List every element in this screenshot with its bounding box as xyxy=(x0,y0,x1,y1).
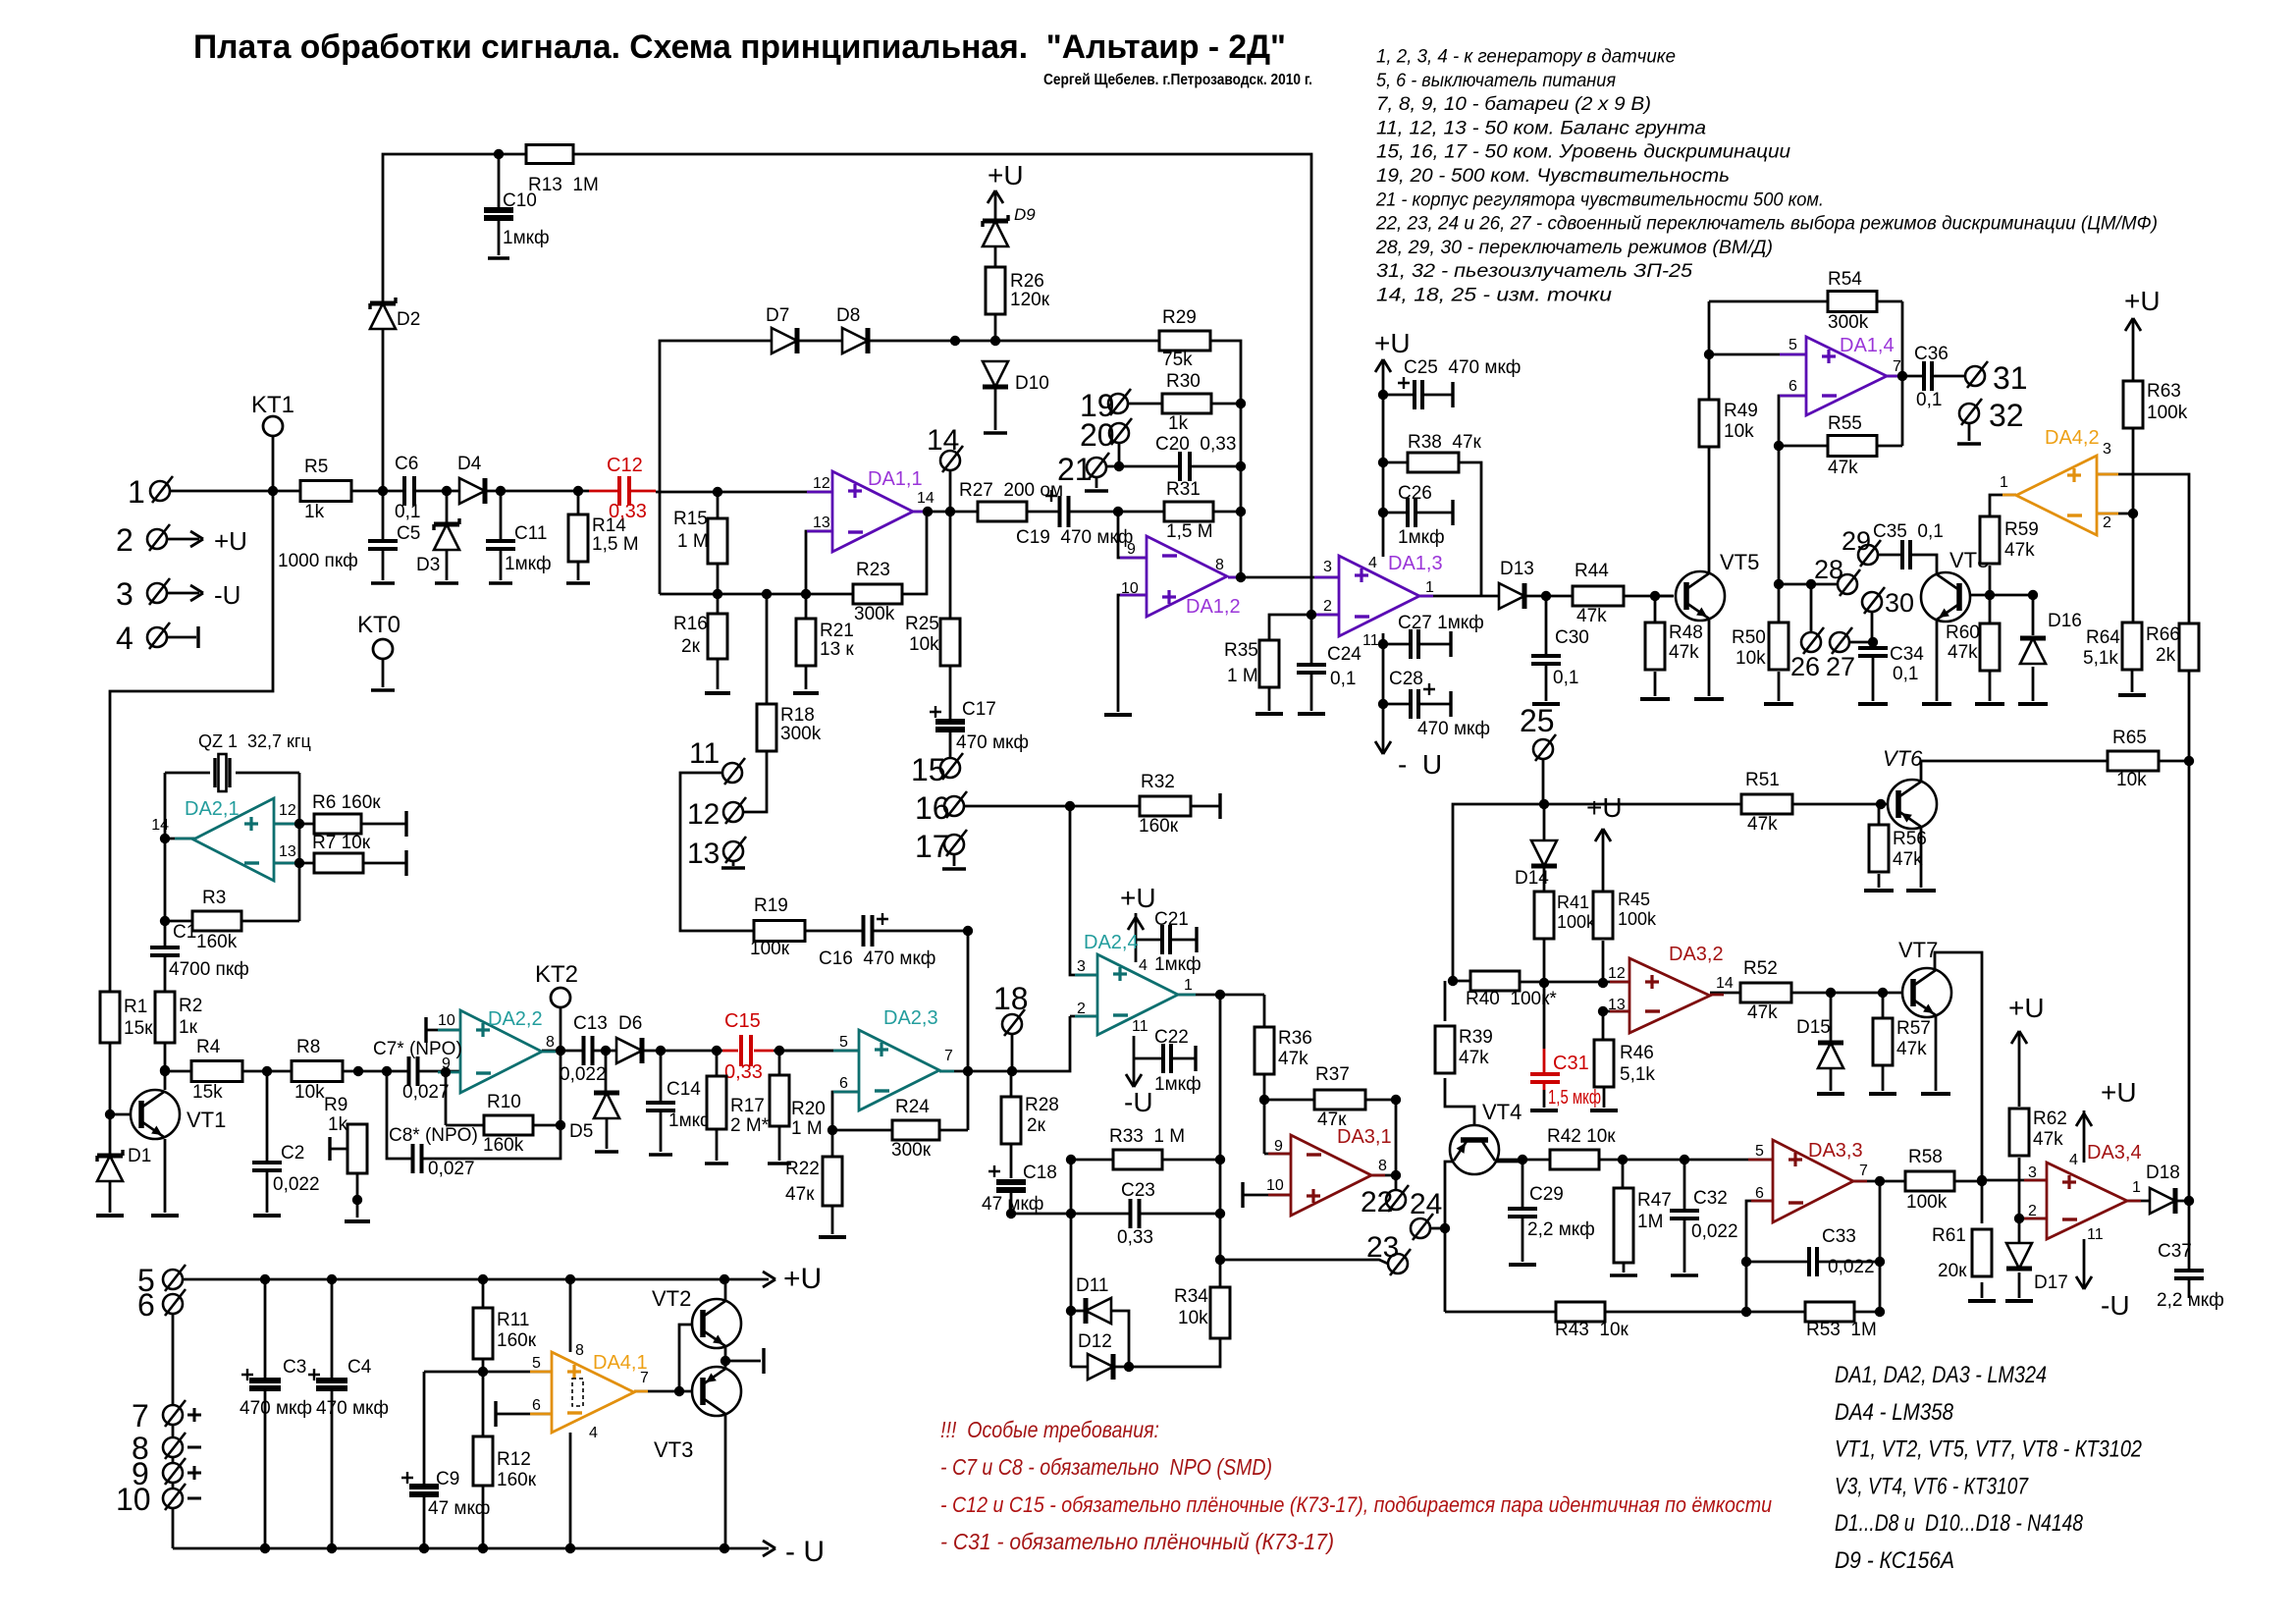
svg-text:0,33: 0,33 xyxy=(609,501,647,522)
svg-text:C13: C13 xyxy=(573,1013,608,1034)
svg-text:9: 9 xyxy=(1127,541,1136,558)
svg-text:C30: C30 xyxy=(1555,627,1589,648)
wire C4 column xyxy=(331,1279,334,1380)
terminal 26 xyxy=(1801,632,1821,652)
junction dot (492,1577) xyxy=(478,1543,488,1553)
svg-text:5: 5 xyxy=(1755,1143,1764,1160)
junction dot (945,521) xyxy=(923,507,933,516)
junction dot (821,605) xyxy=(801,589,811,599)
svg-text:С16 470 мкф: С16 470 мкф xyxy=(819,948,935,969)
resistor R11 xyxy=(473,1308,493,1359)
diode D2 xyxy=(370,303,396,329)
svg-text:100k: 100k xyxy=(1906,1192,1948,1213)
wire 29 C35 to VT8 collector xyxy=(1878,555,1937,574)
junction dot (1336,626) xyxy=(1307,610,1316,620)
svg-text:+U: +U xyxy=(2124,286,2161,316)
svg-text:R35: R35 xyxy=(1224,640,1258,661)
wire R38 row xyxy=(1383,461,1408,464)
svg-text:1мкф: 1мкф xyxy=(503,228,550,248)
svg-text:D11: D11 xyxy=(1076,1275,1108,1296)
svg-text:16: 16 xyxy=(915,790,950,826)
capacitor C2 xyxy=(266,1071,269,1163)
wire C29 drop xyxy=(1522,1160,1524,1209)
svg-text:R27 200 ом: R27 200 ом xyxy=(959,480,1063,501)
wire DA1,4 pin5 xyxy=(1709,353,1805,356)
wire R65 row xyxy=(1921,761,2108,783)
wire C32 column xyxy=(1683,1160,1686,1211)
wire R33 row xyxy=(1071,1159,1220,1162)
svg-text:10: 10 xyxy=(116,1482,151,1517)
junction dot (1243,1013) xyxy=(1215,990,1225,1000)
junction dot (2027,606) xyxy=(1985,590,1995,600)
junction dot (492,1397) xyxy=(478,1367,488,1377)
svg-text:R54: R54 xyxy=(1828,269,1862,290)
capacitor C32 xyxy=(1670,1210,1699,1219)
svg-text:470 мкф: 470 мкф xyxy=(1417,719,1490,739)
svg-text:C34: C34 xyxy=(1890,644,1924,665)
svg-text:-U: -U xyxy=(2101,1290,2130,1321)
svg-text:R40 100к*: R40 100к* xyxy=(1466,989,1557,1009)
wire 26 stem xyxy=(1810,584,1813,632)
junction dot (589,500) xyxy=(573,486,583,496)
svg-text:DA1,4: DA1,4 xyxy=(1840,335,1895,356)
power rail +U arrow right xyxy=(763,1272,775,1287)
junction dot (1091,1335) xyxy=(1066,1306,1076,1316)
svg-text:R51: R51 xyxy=(1745,770,1780,790)
junction dot (168,1090) xyxy=(160,1065,170,1075)
resistor R53 xyxy=(1805,1302,1854,1322)
svg-text:C24: C24 xyxy=(1327,644,1362,665)
svg-text:1 М: 1 М xyxy=(1227,666,1258,686)
wire DA3,3 pin6 to C33 xyxy=(1746,1201,1773,1312)
junction dot (986,1091) xyxy=(963,1066,973,1076)
wire terminal 2 arrow xyxy=(167,538,199,541)
svg-text:R20: R20 xyxy=(791,1099,826,1119)
svg-text:R4: R4 xyxy=(196,1037,221,1057)
capacitor C22 xyxy=(1162,1044,1172,1073)
svg-text:R2: R2 xyxy=(179,996,202,1016)
capacitor C23 xyxy=(1130,1199,1141,1228)
wire 24 lead xyxy=(1430,1227,1445,1230)
svg-text:21: 21 xyxy=(1057,452,1093,487)
wire crystal row xyxy=(165,772,299,775)
capacitor C31 film red xyxy=(1530,1074,1560,1082)
svg-text:5, 6 - выключатель питания: 5, 6 - выключатель питания xyxy=(1376,71,1616,91)
svg-text:D7: D7 xyxy=(766,305,789,326)
svg-text:R45: R45 xyxy=(1618,890,1650,909)
junction dot (305,879) xyxy=(294,858,304,868)
op-amp DA1,1 xyxy=(832,471,913,552)
svg-text:-U: -U xyxy=(214,580,240,610)
wire VT2 collector xyxy=(724,1279,727,1301)
junction dot (794,1070) xyxy=(774,1046,784,1056)
diode D3 xyxy=(434,524,459,550)
svg-text:10: 10 xyxy=(438,1012,455,1029)
wire 17 stub xyxy=(953,854,956,866)
terminal 3 xyxy=(147,583,167,603)
wire 23 row xyxy=(1220,1260,1388,1264)
svg-text:14: 14 xyxy=(917,490,934,507)
wire inverting row R23 xyxy=(660,512,927,594)
wire D16 drop xyxy=(2032,595,2035,635)
junction dot (1918,1011) xyxy=(1878,988,1888,998)
svg-text:11, 12, 13 - 50 ком. Баланс гр: 11, 12, 13 - 50 ком. Баланс грунта xyxy=(1376,118,1706,138)
wire C3 column xyxy=(264,1279,267,1380)
svg-text:DA1, DA2, DA3 - LM324: DA1, DA2, DA3 - LM324 xyxy=(1835,1362,2047,1388)
svg-text:47к: 47к xyxy=(1317,1110,1347,1130)
svg-text:D14: D14 xyxy=(1515,868,1549,889)
wire DA3,1 pin9 column R36 R37 xyxy=(1264,1153,1291,1156)
junction dot (272,1091) xyxy=(262,1066,272,1076)
svg-text:2: 2 xyxy=(116,522,133,558)
svg-text:22: 22 xyxy=(1361,1186,1393,1218)
junction dot (2230,775) xyxy=(2184,756,2194,766)
wire R62 column xyxy=(2018,1031,2021,1107)
wire VT1 emitter xyxy=(164,1139,167,1213)
svg-text:24: 24 xyxy=(1410,1188,1442,1220)
svg-text:1мкф: 1мкф xyxy=(1154,1074,1201,1095)
terminal 18 xyxy=(1002,1014,1022,1034)
svg-text:4: 4 xyxy=(589,1425,598,1441)
resistor R8 xyxy=(292,1061,343,1082)
junction dot (1686,607) xyxy=(1650,591,1660,601)
svg-text:4: 4 xyxy=(1368,555,1377,571)
svg-text:R8: R8 xyxy=(296,1037,320,1057)
junction dot (968,521) xyxy=(945,507,955,516)
terminal 1 xyxy=(150,481,170,501)
svg-text:0,33: 0,33 xyxy=(724,1061,763,1083)
svg-text:D4: D4 xyxy=(457,454,482,474)
svg-text:13 к: 13 к xyxy=(820,639,854,660)
wire DA2,4 output column down xyxy=(1219,995,1222,1260)
svg-text:VT3: VT3 xyxy=(654,1437,693,1462)
junction dot (305,839) xyxy=(294,819,304,829)
wire R39 column VT4 base xyxy=(1444,981,1447,1021)
capacitor C16 electrolytic xyxy=(863,915,874,947)
junction dot (2019,1203) xyxy=(1977,1176,1987,1186)
svg-text:47k: 47k xyxy=(1747,814,1778,835)
svg-text:1мкф: 1мкф xyxy=(1398,527,1445,548)
resistor R16 xyxy=(708,614,727,659)
junction dot (338,1303) xyxy=(327,1274,337,1284)
transistor VT7 xyxy=(1902,968,1951,1017)
svg-text:14: 14 xyxy=(1716,975,1734,992)
svg-text:D18: D18 xyxy=(2146,1163,2180,1183)
wire terminal 4 stub xyxy=(167,636,196,639)
resistor R25 xyxy=(940,619,960,666)
svg-text:R39: R39 xyxy=(1459,1027,1493,1048)
op-amp DA3,3 xyxy=(1773,1140,1853,1222)
svg-text:10k: 10k xyxy=(1178,1308,1208,1328)
wire top rail R13 row xyxy=(383,154,1311,615)
svg-text:0,1: 0,1 xyxy=(1553,668,1578,688)
svg-text:C6: C6 xyxy=(395,454,418,474)
svg-text:12: 12 xyxy=(279,802,296,819)
svg-text:1к: 1к xyxy=(179,1017,198,1038)
capacitor C4 electrolytic xyxy=(316,1380,347,1389)
wire VT5 emitter xyxy=(1708,619,1711,696)
svg-text:C3: C3 xyxy=(283,1357,306,1378)
wire terminal 14 column R25 C17 xyxy=(949,470,952,721)
junction dot (1139,521) xyxy=(1113,507,1123,516)
wire D7 D8 feedback loop xyxy=(660,341,1241,594)
svg-text:300k: 300k xyxy=(1828,312,1869,333)
svg-text:75k: 75k xyxy=(1162,350,1193,370)
svg-text:47k: 47k xyxy=(1893,849,1923,870)
svg-text:R41: R41 xyxy=(1557,893,1589,912)
wire DA3,4 pin3 row xyxy=(1982,1179,2047,1182)
wire DA2,4 pin11 column xyxy=(1133,1036,1136,1086)
wire DA2,2 pin9 drop xyxy=(445,1072,448,1125)
svg-text:6: 6 xyxy=(1755,1185,1764,1202)
junction dot (1422,1197) xyxy=(1391,1170,1401,1180)
terminal 28 xyxy=(1838,574,1857,594)
terminal 21 xyxy=(1087,458,1106,477)
terminal 32 xyxy=(1959,404,1979,423)
wire DA1,4 pin6 R55 xyxy=(1779,396,1805,622)
op-amp DA3,1 xyxy=(1291,1135,1371,1216)
svg-text:2,2 мкф: 2,2 мкф xyxy=(2157,1290,2224,1311)
svg-text:47k: 47k xyxy=(1896,1039,1927,1059)
capacitor C8 xyxy=(412,1144,423,1173)
resistor R60 xyxy=(1980,623,2000,671)
svg-text:1000 пкф: 1000 пкф xyxy=(278,551,358,571)
junction dot (1716,1181) xyxy=(1680,1155,1689,1164)
svg-text:R66: R66 xyxy=(2146,624,2180,645)
capacitor C6 xyxy=(403,476,415,506)
svg-text:47k: 47k xyxy=(1576,606,1607,626)
op-amp DA3,2 xyxy=(1629,958,1710,1033)
power +U arrow R62 xyxy=(2011,1031,2027,1044)
wire terminal 13 stub xyxy=(732,861,735,866)
wire R37 row to output xyxy=(1264,1099,1314,1102)
resistor R17 xyxy=(707,1076,726,1129)
op-amp DA1,3 xyxy=(1339,556,1419,636)
resistor R58 xyxy=(1905,1171,1954,1191)
wire DA3,4 -U arrow stem xyxy=(2083,1239,2086,1289)
capacitor C13 xyxy=(583,1036,594,1065)
svg-text:12: 12 xyxy=(813,475,830,492)
resistor R55 xyxy=(1828,436,1877,457)
svg-text:2: 2 xyxy=(1323,598,1332,615)
diode D10 xyxy=(983,361,1008,387)
svg-text:47k: 47k xyxy=(1669,642,1699,663)
svg-text:C4: C4 xyxy=(347,1357,372,1378)
svg-text:R30: R30 xyxy=(1166,371,1201,392)
wire DA3,3 pin5 row R42 xyxy=(1495,1159,1773,1162)
svg-text:0,1: 0,1 xyxy=(395,502,420,522)
svg-text:R61: R61 xyxy=(1932,1225,1966,1246)
junction dot (1243,1236) xyxy=(1215,1209,1225,1218)
transistor VT1 xyxy=(131,1090,180,1139)
svg-text:+U: +U xyxy=(2008,993,2045,1023)
svg-text:300k: 300k xyxy=(854,604,895,624)
svg-text:0,1: 0,1 xyxy=(1330,669,1356,689)
capacitor C17 electrolytic xyxy=(935,721,965,731)
transistor VT8 xyxy=(1921,572,1970,622)
resistor R57 xyxy=(1873,1018,1893,1065)
svg-text:C17: C17 xyxy=(962,699,996,720)
svg-text:VT1: VT1 xyxy=(187,1108,226,1132)
test point KT0 xyxy=(373,639,393,659)
wire R54 feedback row xyxy=(1709,300,1902,303)
capacitor C15 film red xyxy=(740,1035,752,1066)
wire VT4 collector to R42 xyxy=(1495,1160,1522,1162)
svg-text:6: 6 xyxy=(839,1075,848,1092)
transistor VT2 xyxy=(692,1299,741,1348)
terminal 24 xyxy=(1411,1218,1430,1238)
power -U arrow DA2,4 xyxy=(1126,1074,1142,1087)
svg-text:C5: C5 xyxy=(397,523,420,544)
svg-text:QZ 1 32,7 кгц: QZ 1 32,7 кгц xyxy=(198,731,311,751)
junction dot (510,500) xyxy=(496,486,506,496)
svg-text:+U: +U xyxy=(214,526,247,556)
svg-text:30: 30 xyxy=(1885,588,1914,618)
resistor R37 xyxy=(1314,1090,1365,1110)
svg-text:18: 18 xyxy=(993,981,1029,1016)
wire +U power rail xyxy=(173,1278,769,1281)
capacitor C12 film red xyxy=(618,476,630,506)
svg-text:2к: 2к xyxy=(1027,1115,1046,1136)
resistor R15 xyxy=(708,518,727,564)
svg-text:D3: D3 xyxy=(416,555,440,575)
svg-text:C32: C32 xyxy=(1693,1188,1728,1209)
junction dot (508,157) xyxy=(494,149,504,159)
wire left rail to VT1 xyxy=(110,491,273,1156)
svg-text:1,5 М: 1,5 М xyxy=(1166,521,1213,542)
svg-text:11: 11 xyxy=(1132,1018,1148,1035)
svg-text:C28: C28 xyxy=(1389,669,1423,689)
diode D17 xyxy=(2006,1243,2032,1269)
svg-text:R15: R15 xyxy=(673,509,708,529)
svg-text:5: 5 xyxy=(532,1355,541,1372)
resistor R39 xyxy=(1435,1026,1455,1073)
resistor R66 xyxy=(2179,623,2199,671)
junction dot (973,347) xyxy=(950,336,960,346)
svg-text:R32: R32 xyxy=(1141,772,1175,792)
svg-text:- U: - U xyxy=(785,1536,825,1568)
transistor VT5 xyxy=(1676,571,1725,621)
capacitor C26 xyxy=(1407,498,1416,527)
svg-text:R63: R63 xyxy=(2147,381,2181,402)
junction dot (1150,1392) xyxy=(1124,1362,1134,1372)
svg-text:R59: R59 xyxy=(2004,519,2039,540)
junction dot (1243,1283) xyxy=(1215,1255,1225,1265)
terminal 17 xyxy=(944,835,964,854)
junction dot (394,1091) xyxy=(382,1066,392,1076)
wire DA2,1 pin12 R6 xyxy=(274,823,314,826)
junction dot (168,1091) xyxy=(160,1066,170,1076)
terminal 10 xyxy=(163,1489,183,1508)
op-amp DA1,4 xyxy=(1806,337,1887,415)
resistor R49 xyxy=(1699,400,1719,447)
resistor R50 xyxy=(1769,623,1789,670)
svg-text:2k: 2k xyxy=(2156,645,2176,666)
junction dot (986,948) xyxy=(963,926,973,936)
junction dot (1409,402) xyxy=(1378,390,1388,400)
wire R24 to output column xyxy=(939,1129,968,1132)
wire DA4,1 pin5 row xyxy=(424,1371,552,1374)
power -U arrow DA3,4 xyxy=(2076,1276,2092,1289)
svg-text:C36: C36 xyxy=(1914,344,1949,364)
resistor R29 xyxy=(1159,331,1210,351)
terminal 30 xyxy=(1862,592,1882,612)
svg-text:11: 11 xyxy=(1362,632,1379,649)
svg-text:13: 13 xyxy=(279,843,296,860)
wire R64 ground lead xyxy=(2131,670,2134,692)
wire DA3,3 output column down xyxy=(1879,1181,1882,1312)
junction dot (1264,411) xyxy=(1236,399,1246,408)
wire DA4,1 pin6 stub xyxy=(496,1413,552,1416)
svg-text:11: 11 xyxy=(2087,1226,2104,1243)
resistor R59 xyxy=(1980,516,2000,564)
VT2 VT3 emitter output stub bar xyxy=(762,1348,765,1374)
svg-text:+U: +U xyxy=(783,1263,822,1295)
svg-text:D9: D9 xyxy=(1014,205,1036,224)
wire C27 leads xyxy=(1383,643,1451,646)
svg-text:15, 16, 17 - 50 ком. Уровень д: 15, 16, 17 - 50 ком. Уровень дискриминац… xyxy=(1376,142,1790,163)
svg-text:15к: 15к xyxy=(124,1018,153,1039)
svg-text:R25: R25 xyxy=(905,614,939,634)
svg-text:R42 10к: R42 10к xyxy=(1547,1126,1616,1147)
svg-text:7: 7 xyxy=(640,1370,649,1386)
wire VT7 collector to DA3,4 pin3 node xyxy=(1935,952,1982,1180)
resistor R35 xyxy=(1259,640,1279,687)
junction dot (432,1577) xyxy=(419,1543,429,1553)
resistor R33 xyxy=(1113,1150,1162,1169)
junction dot (1031,1091) xyxy=(1007,1066,1017,1076)
wire R18 column to terminal 12 xyxy=(743,594,767,812)
svg-text:100k: 100k xyxy=(1618,909,1657,929)
wire R53 R43 row xyxy=(1445,1311,1880,1314)
wire C10 drop xyxy=(498,154,501,210)
svg-text:R31: R31 xyxy=(1166,479,1201,500)
resistor R52 xyxy=(1740,983,1791,1002)
terminal 9 xyxy=(163,1463,183,1483)
resistor R40 xyxy=(1470,971,1520,991)
svg-text:2: 2 xyxy=(2103,514,2111,531)
wire DA1,3 pin11 column xyxy=(1382,633,1385,751)
svg-text:- С31 - обязательно плёночный: - С31 - обязательно плёночный (К73-17) xyxy=(940,1529,1334,1554)
junction dot (1264,475) xyxy=(1236,461,1246,471)
wire DA2,1 left rail C1 R2 xyxy=(164,773,167,1090)
junction dot (390,500) xyxy=(378,486,388,496)
wire -U power rail xyxy=(173,1547,769,1550)
svg-text:1 М: 1 М xyxy=(791,1118,823,1139)
svg-text:47k: 47k xyxy=(1948,642,1978,663)
svg-text:1: 1 xyxy=(2000,474,2008,491)
svg-text:С19 470 мкф: С19 470 мкф xyxy=(1016,527,1133,548)
wire DA2,3 pin6 R24 xyxy=(832,1092,892,1130)
svg-text:21 - корпус регулятора чувстви: 21 - корпус регулятора чувствительности … xyxy=(1375,189,1824,210)
wire C11 drop xyxy=(500,491,503,580)
resistor R19 xyxy=(754,921,805,942)
resistor R56 xyxy=(1869,825,1889,872)
terminal 2 xyxy=(147,529,167,549)
resistor R46 xyxy=(1594,1040,1614,1087)
svg-text:DA3,4: DA3,4 xyxy=(2087,1142,2142,1164)
junction dot (581,1303) xyxy=(565,1274,575,1284)
wire DA3,4 pin2 row xyxy=(2019,1218,2047,1220)
svg-text:R34: R34 xyxy=(1174,1286,1208,1307)
wire DA2,1 pin14 xyxy=(165,838,195,840)
svg-text:R23: R23 xyxy=(856,560,890,580)
svg-text:10k: 10k xyxy=(294,1082,325,1103)
svg-text:DA3,3: DA3,3 xyxy=(1808,1140,1863,1162)
capacitor C24 xyxy=(1297,664,1326,674)
svg-text:10k: 10k xyxy=(909,634,939,655)
op-amp colored pin stubs xyxy=(807,491,832,494)
